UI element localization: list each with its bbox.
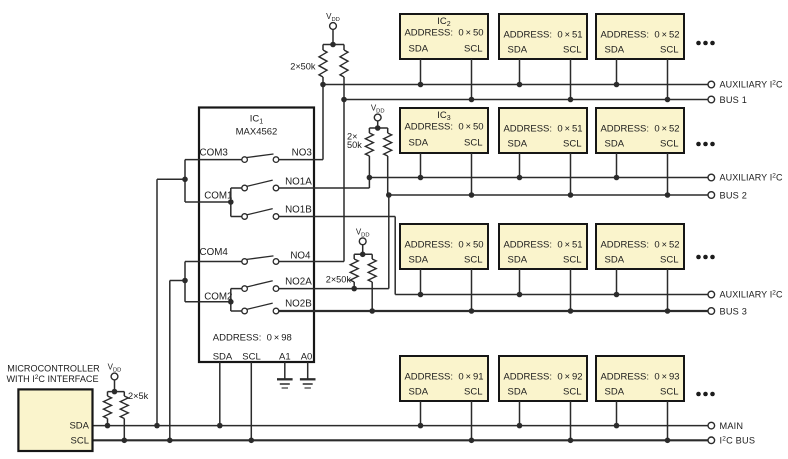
pin label SCL of microcontroller — [71, 436, 89, 447]
IC slave device row 4 col 1: ADDRESS 0x91 — [400, 356, 488, 401]
IC slave device row 2 col 1: ADDRESS 0x50 — [400, 108, 488, 153]
junction COM2 — [228, 299, 234, 305]
wire SCL pin row 3 col 3 — [667, 269, 669, 311]
junction SCL row 2 col 3 — [665, 192, 671, 198]
wire auxiliary I2C bus 1 SDA — [323, 84, 708, 86]
svg-text:SCL: SCL — [464, 255, 482, 266]
wire SCL pin row 2 col 1 — [471, 153, 473, 195]
ellipsis more devices row 3 — [696, 255, 715, 260]
junction bus3 SCL pullup — [369, 308, 375, 314]
svg-text:50k: 50k — [347, 140, 362, 150]
svg-text:SDA: SDA — [409, 255, 429, 266]
IC slave device row 3 col 3: ADDRESS 0x52 — [596, 224, 684, 269]
junction SCL row 4 col 3 — [665, 438, 671, 444]
resistor 2x50k left (bus1 SDA pullup) — [319, 45, 344, 85]
power VDD (bus 2 pullups) — [371, 104, 385, 129]
svg-text:SDA: SDA — [409, 138, 429, 149]
junction SCL row 2 col 1 — [469, 192, 475, 198]
pin label A1 of IC1 — [279, 352, 291, 363]
wire SDA pin row 4 col 2 — [519, 401, 521, 426]
node I2C BUS terminal — [708, 436, 755, 446]
junction SDA row 3 col 1 — [418, 292, 424, 298]
wire SDA pin row 2 col 3 — [616, 153, 618, 178]
svg-text:SCL: SCL — [464, 44, 482, 55]
wire COM4 — [185, 262, 242, 302]
junction bus1 SCL pullup — [341, 97, 347, 103]
junction NO2A pullup — [351, 286, 357, 292]
svg-text:SCL: SCL — [563, 139, 581, 150]
junction VDD3 — [360, 252, 366, 258]
junction SCL row 1 col 3 — [665, 97, 671, 103]
junction COM3/COM1 riser on main SDA — [154, 423, 160, 429]
wire COM3 — [185, 160, 242, 202]
resistor 2x50k right (bus3 SCL pullup) — [368, 254, 376, 311]
wire auxiliary I2C bus 3 SDA — [395, 294, 707, 296]
pin label COM1 of IC1 — [204, 191, 232, 202]
wire SDA pin row 1 col 2 — [519, 59, 521, 85]
svg-text:SDA: SDA — [605, 139, 625, 150]
junction SDA row 1 col 2 — [517, 82, 523, 88]
pin label A0 of IC1 — [301, 352, 313, 363]
junction VDD2 — [375, 125, 381, 131]
IC microcontroller box — [6, 364, 100, 452]
IC slave device row 4 col 2: ADDRESS 0x92 — [499, 356, 587, 401]
wire SCL pin of IC1 to main bus — [250, 362, 252, 440]
svg-text:SCL: SCL — [563, 255, 581, 266]
ellipsis more devices row 4 — [696, 392, 715, 397]
pin label NO1B of IC1 — [285, 205, 312, 216]
resistor 2x50k right (bus1 SCL pullup) — [340, 45, 348, 100]
svg-text:WITH I2C INTERFACE: WITH I2C INTERFACE — [6, 374, 98, 384]
junction SDA row 4 col 1 — [418, 423, 424, 429]
svg-text:ADDRESS: 0 × 52: ADDRESS: 0 × 52 — [600, 240, 679, 251]
wire SCL pin row 4 col 2 — [570, 401, 572, 440]
pin label NO2B of IC1 — [285, 299, 312, 310]
svg-text:ADDRESS: 0 × 98: ADDRESS: 0 × 98 — [213, 333, 292, 344]
ground at A0 — [300, 362, 316, 388]
node AUXILIARY I2C BUS 2 terminal — [708, 173, 783, 183]
svg-text:NO3: NO3 — [292, 148, 313, 159]
power VDD (bus 3 pullups) — [356, 227, 370, 254]
junction SCL row 3 col 2 — [568, 308, 574, 314]
svg-text:BUS 1: BUS 1 — [720, 95, 748, 105]
svg-text:NO1A: NO1A — [285, 176, 312, 187]
junction SCL row 1 col 2 — [568, 97, 574, 103]
node AUXILIARY I2C BUS 1 terminal — [708, 80, 783, 90]
ellipsis more devices row 1 — [696, 41, 715, 46]
svg-text:COM4: COM4 — [200, 247, 229, 258]
wire SDA pin row 3 col 2 — [519, 269, 521, 295]
junction IC1 SDA on main bus — [217, 423, 223, 429]
svg-text:SDA: SDA — [605, 255, 625, 266]
wire SDA pin row 3 col 1 — [420, 269, 422, 295]
svg-text:2×50k: 2×50k — [326, 275, 352, 285]
IC slave device row 3 col 1: ADDRESS 0x50 — [400, 224, 488, 269]
switch NO1B (COM1-NO1B) — [242, 209, 279, 220]
node BUS 3 terminal — [708, 306, 747, 316]
junction main SDA pullup — [105, 423, 111, 429]
junction SDA row 4 col 3 — [614, 423, 620, 429]
wire SDA pin row 4 col 1 — [420, 401, 422, 426]
svg-text:ADDRESS: 0 × 51: ADDRESS: 0 × 51 — [503, 124, 582, 135]
ground at A1 — [277, 362, 293, 388]
junction COM4/COM2 riser on main SCL — [167, 438, 173, 444]
junction VDD4 — [112, 389, 118, 395]
wire auxiliary I2C bus 2 SDA — [369, 177, 707, 179]
wire SCL pin row 2 col 3 — [667, 153, 669, 195]
junction — [182, 278, 188, 284]
junction SCL row 3 col 3 — [665, 308, 671, 314]
junction bus2 SCL pullup — [386, 192, 392, 198]
pin label SDA of microcontroller — [69, 420, 89, 431]
svg-text:SCL: SCL — [660, 45, 678, 56]
junction SCL row 4 col 2 — [568, 438, 574, 444]
wire SDA pin row 3 col 3 — [616, 269, 618, 295]
wire NO1B to aux bus 3 — [279, 217, 395, 295]
wire bus 2 SCL — [389, 194, 708, 196]
junction SCL row 1 col 1 — [469, 97, 475, 103]
pin label NO1A of IC1 — [285, 176, 312, 187]
svg-text:ADDRESS: 0 × 92: ADDRESS: 0 × 92 — [503, 372, 582, 383]
svg-text:SDA: SDA — [605, 387, 625, 398]
switch NO1A (COM1-NO1A) — [242, 180, 279, 191]
IC slave device row 1 col 1: ADDRESS 0x50 — [400, 14, 488, 59]
wire SDA pin row 2 col 1 — [420, 153, 422, 178]
junction — [182, 177, 188, 183]
svg-text:MAIN: MAIN — [720, 421, 744, 431]
svg-text:SCL: SCL — [563, 387, 581, 398]
wire SCL pin row 1 col 2 — [570, 59, 572, 100]
junction SCL row 3 col 1 — [469, 308, 475, 314]
svg-text:MAX4562: MAX4562 — [236, 127, 278, 138]
node BUS 2 terminal — [708, 190, 747, 200]
svg-text:SCL: SCL — [563, 45, 581, 56]
power VDD (main bus pullups) — [108, 363, 122, 392]
wire SDA pin row 2 col 2 — [519, 153, 521, 178]
junction IC1 SCL on main bus — [249, 438, 255, 444]
svg-text:ADDRESS: 0 × 50: ADDRESS: 0 × 50 — [404, 28, 483, 39]
pin label SCL of IC1 — [242, 352, 260, 363]
value label 2x5k (main) — [128, 391, 149, 401]
svg-text:ADDRESS: 0 × 52: ADDRESS: 0 × 52 — [600, 124, 679, 135]
node AUXILIARY I2C BUS 3 terminal — [708, 290, 783, 300]
switch NO3 (COM3-NO3) — [242, 154, 279, 162]
wire main I2C bus SCL — [93, 439, 708, 441]
svg-text:A0: A0 — [301, 352, 313, 363]
wire bus 1 SCL — [344, 99, 708, 101]
svg-text:2×5k: 2×5k — [128, 391, 149, 401]
wire SDA feed to COM3/COM1 — [157, 179, 185, 425]
svg-text:BUS 3: BUS 3 — [720, 306, 748, 316]
svg-text:BUS 2: BUS 2 — [720, 190, 748, 200]
IC slave device row 3 col 2: ADDRESS 0x51 — [499, 224, 587, 269]
resistor 2x50k left (bus2 SDA pullup) — [365, 128, 387, 178]
wire SCL feed to COM4/COM2 — [170, 281, 185, 441]
junction SDA row 1 col 1 — [418, 82, 424, 88]
switch NO2B (COM2-NO2B) — [242, 303, 279, 314]
wire SCL pin row 4 col 3 — [667, 401, 669, 440]
svg-text:SCL: SCL — [660, 387, 678, 398]
wire NO2A to bus 2 SCL — [279, 195, 389, 289]
svg-text:SCL: SCL — [71, 436, 89, 447]
svg-text:ADDRESS: 0 × 93: ADDRESS: 0 × 93 — [600, 372, 679, 383]
svg-text:SDA: SDA — [409, 387, 429, 398]
wire NO4 to bus 1 SCL — [279, 100, 344, 262]
value label 2x50k (bus1) — [290, 62, 316, 72]
IC slave device row 1 col 2: ADDRESS 0x51 — [499, 14, 587, 59]
junction SDA row 1 col 3 — [614, 82, 620, 88]
wire NO2B / bus 3 SCL — [279, 310, 708, 312]
wire SDA pin row 4 col 3 — [616, 401, 618, 426]
ellipsis more devices row 2 — [696, 142, 715, 147]
power VDD (top, bus 1 pullups) — [326, 12, 340, 45]
svg-text:NO4: NO4 — [290, 250, 311, 261]
node MAIN terminal — [708, 421, 743, 431]
value label 2x50k (bus3) — [326, 275, 352, 285]
node BUS 1 terminal — [708, 95, 747, 105]
resistor 2x50k right (bus2 SCL pullup) — [384, 128, 392, 195]
IC slave device row 2 col 2: ADDRESS 0x51 — [499, 108, 587, 153]
junction main SCL pullup — [122, 438, 128, 444]
IC slave device row 1 col 3: ADDRESS 0x52 — [596, 14, 684, 59]
svg-text:SDA: SDA — [508, 255, 528, 266]
svg-text:SCL: SCL — [660, 255, 678, 266]
svg-text:MICROCONTROLLER: MICROCONTROLLER — [7, 364, 100, 374]
IC slave device row 2 col 3: ADDRESS 0x52 — [596, 108, 684, 153]
junction SDA row 4 col 2 — [517, 423, 523, 429]
svg-text:SDA: SDA — [213, 352, 233, 363]
switch NO2A (COM2-NO2A) — [242, 281, 279, 292]
IC U1: MAX4562 analog switch IC1 box — [199, 108, 314, 363]
svg-text:ADDRESS: 0 × 51: ADDRESS: 0 × 51 — [503, 240, 582, 251]
pin label NO3 of IC1 — [292, 148, 313, 159]
svg-text:SCL: SCL — [242, 352, 260, 363]
resistor 2x50k left (bus3 pullup A) — [350, 254, 372, 288]
svg-text:SDA: SDA — [605, 45, 625, 56]
svg-text:SDA: SDA — [69, 420, 89, 431]
svg-text:SCL: SCL — [464, 387, 482, 398]
junction bus2 SDA pullup — [367, 175, 373, 181]
wire main I2C bus SDA — [93, 425, 708, 427]
wire COM1 — [185, 188, 242, 217]
svg-text:NO1B: NO1B — [285, 205, 312, 216]
junction SDA row 3 col 3 — [614, 292, 620, 298]
svg-text:SDA: SDA — [409, 44, 429, 55]
junction SCL row 4 col 1 — [469, 438, 475, 444]
junction COM1 — [228, 199, 234, 205]
pin label COM4 of IC1 — [200, 247, 229, 258]
pin label COM3 of IC1 — [200, 148, 229, 159]
wire SDA pin row 1 col 3 — [616, 59, 618, 85]
wire SDA pin of IC1 to main bus — [219, 362, 221, 426]
IC slave device row 4 col 3: ADDRESS 0x93 — [596, 356, 684, 401]
junction SDA row 2 col 1 — [418, 175, 424, 181]
resistor 2x5k right (main SCL pullup) — [120, 392, 128, 441]
svg-text:SCL: SCL — [464, 138, 482, 149]
svg-text:A1: A1 — [279, 352, 291, 363]
wire SCL pin row 4 col 1 — [471, 401, 473, 440]
svg-text:NO2A: NO2A — [285, 276, 312, 287]
svg-text:SDA: SDA — [508, 387, 528, 398]
pin label COM2 of IC1 — [204, 292, 232, 303]
value label 2x 50k (bus2) — [347, 132, 362, 150]
wire SCL pin row 2 col 2 — [570, 153, 572, 195]
svg-text:ADDRESS: 0 × 50: ADDRESS: 0 × 50 — [404, 240, 483, 251]
svg-text:ADDRESS: 0 × 91: ADDRESS: 0 × 91 — [404, 372, 483, 383]
junction SDA row 2 col 2 — [517, 175, 523, 181]
wire SCL pin row 1 col 3 — [667, 59, 669, 100]
svg-text:SCL: SCL — [660, 139, 678, 150]
svg-text:COM3: COM3 — [200, 148, 229, 159]
svg-text:2×50k: 2×50k — [290, 62, 316, 72]
resistor 2x5k left (main SDA pullup) — [104, 392, 125, 426]
wire SCL pin row 3 col 1 — [471, 269, 473, 311]
wire SCL pin row 3 col 2 — [570, 269, 572, 311]
wire SCL pin row 1 col 1 — [471, 59, 473, 100]
svg-text:NO2B: NO2B — [285, 299, 312, 310]
wire COM2 — [185, 289, 242, 311]
pin label NO2A of IC1 — [285, 276, 312, 287]
svg-text:SDA: SDA — [508, 139, 528, 150]
wire SDA pin row 1 col 1 — [420, 59, 422, 85]
switch NO4 (COM4-NO4) — [242, 256, 279, 264]
svg-text:ADDRESS: 0 × 50: ADDRESS: 0 × 50 — [404, 122, 483, 133]
svg-text:ADDRESS: 0 × 52: ADDRESS: 0 × 52 — [600, 30, 679, 41]
svg-text:SDA: SDA — [508, 45, 528, 56]
junction SCL row 2 col 2 — [568, 192, 574, 198]
junction SDA row 2 col 3 — [614, 175, 620, 181]
pin label NO4 of IC1 — [290, 250, 311, 261]
svg-text:ADDRESS: 0 × 51: ADDRESS: 0 × 51 — [503, 30, 582, 41]
junction bus1 SDA pullup — [320, 82, 326, 88]
pin label SDA of IC1 — [213, 352, 233, 363]
junction VDD1 — [330, 42, 336, 48]
junction SDA row 3 col 2 — [517, 292, 523, 298]
wire NO1A to aux bus 2 — [279, 178, 370, 189]
svg-text:COM1: COM1 — [204, 191, 232, 202]
wire NO3 to aux bus 1 — [279, 85, 323, 160]
